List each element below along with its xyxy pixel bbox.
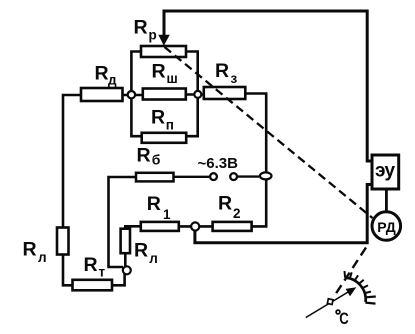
temperature scale arc with ticks <box>345 271 376 304</box>
svg-text:РД: РД <box>377 219 395 235</box>
dashed mechanical link Rp wiper to RD <box>165 47 373 218</box>
wire Rb right to supply terminal <box>174 176 210 178</box>
svg-text:R: R <box>218 193 232 215</box>
resistor R2 <box>213 222 252 231</box>
svg-text:д: д <box>108 73 117 88</box>
svg-text:R: R <box>215 60 229 82</box>
svg-text:р: р <box>149 28 157 43</box>
svg-text:R: R <box>137 145 151 167</box>
svg-text:л: л <box>38 250 47 265</box>
svg-text:2: 2 <box>233 206 241 221</box>
resistor Rz <box>204 87 246 99</box>
svg-text:R: R <box>147 193 161 215</box>
svg-text:R: R <box>152 61 166 83</box>
node R circle (right of parallel group) <box>194 91 201 98</box>
motor RD circle <box>372 212 401 241</box>
dashed mechanical link RD to pointer <box>334 248 366 297</box>
label degrees C: degree ring <box>336 310 340 314</box>
wire Rl2 top to R1 <box>125 226 141 229</box>
terminal circle right of ~6.3V gap <box>230 173 237 180</box>
resistor Rl left (vertical) <box>57 228 69 255</box>
rheostat Rp <box>141 46 186 57</box>
wire Rd left down the left side <box>63 95 82 228</box>
svg-text:R: R <box>95 63 109 85</box>
node L circle (left of parallel group) <box>128 91 135 98</box>
wire node A down and across to EU output leg <box>195 185 372 243</box>
resistor Rp2 (parallel bottom) <box>142 133 187 143</box>
wire node row: Rd right to Rsh left <box>123 94 144 97</box>
svg-text:~6.3В: ~6.3В <box>198 156 239 172</box>
resistor Rb <box>136 173 174 182</box>
svg-text:л: л <box>149 251 158 266</box>
resistor Rt <box>73 280 113 291</box>
svg-text:1: 1 <box>163 207 171 222</box>
svg-text:R: R <box>134 17 148 39</box>
wire terminal to node C <box>238 175 259 177</box>
svg-text:R: R <box>134 240 148 262</box>
wire Rsh right to Rz left <box>185 93 204 96</box>
amplifier EU box <box>372 155 399 189</box>
resistor Rsh <box>143 89 186 100</box>
wire right wall of parallel group <box>186 52 198 137</box>
svg-text:эу: эу <box>375 161 395 182</box>
terminal circle left of ~6.3V gap <box>210 173 217 180</box>
svg-text:б: б <box>152 152 161 168</box>
resistor Rl2 (vertical, center) <box>121 229 130 254</box>
wire Rl left bottom to Rt <box>63 255 73 286</box>
svg-text:з: з <box>231 71 238 86</box>
node B junction circle <box>123 266 131 274</box>
svg-text:ш: ш <box>167 71 178 86</box>
wire top feedback from Rp wiper to EU input <box>164 11 372 161</box>
svg-text:С: С <box>339 309 349 328</box>
wire R1 right to R2 left <box>179 225 213 228</box>
wire Rb left rail down to node B <box>109 177 137 267</box>
pointer pivot square bead <box>327 299 333 305</box>
svg-text:п: п <box>166 118 174 133</box>
node C junction blob on right loop <box>260 172 272 179</box>
wire Rt right up to node B <box>112 272 125 285</box>
svg-text:т: т <box>99 265 106 280</box>
svg-text:R: R <box>84 254 98 276</box>
svg-text:R: R <box>151 107 165 129</box>
resistor Rd <box>81 88 123 101</box>
wire left wall of parallel group <box>131 52 142 137</box>
pointer needle with arrowhead <box>306 292 349 318</box>
wire R2 right up to Rz right (right loop) <box>245 94 266 227</box>
svg-text:R: R <box>23 239 37 261</box>
resistor R1 <box>141 222 179 231</box>
wiper arrowhead into Rp <box>158 35 170 46</box>
wire EU to RD motor <box>385 189 388 212</box>
node A junction circle (between R1 and R2) <box>191 222 199 230</box>
wire node B up through Rl2 to R1 left <box>124 253 127 266</box>
